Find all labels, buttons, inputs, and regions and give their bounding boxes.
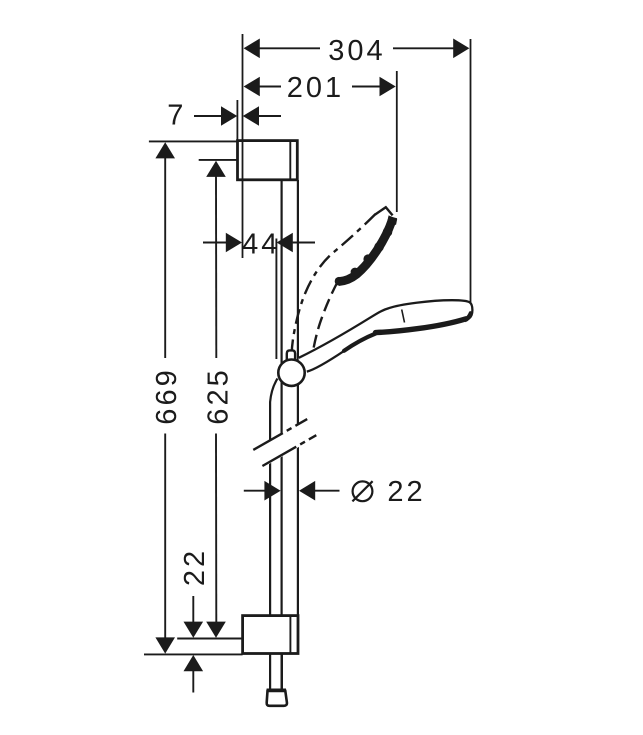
svg-text:22: 22 <box>387 476 425 508</box>
svg-text:669: 669 <box>151 367 183 424</box>
svg-text:7: 7 <box>167 99 186 131</box>
svg-text:44: 44 <box>242 228 280 260</box>
svg-text:22: 22 <box>179 548 211 586</box>
svg-text:625: 625 <box>202 367 234 424</box>
svg-text:304: 304 <box>328 35 385 67</box>
svg-text:201: 201 <box>287 72 344 104</box>
